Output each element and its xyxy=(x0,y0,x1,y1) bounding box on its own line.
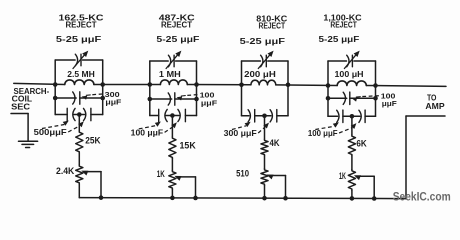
svg-text:1K: 1K xyxy=(157,169,165,179)
potentiometer R3b 510 xyxy=(236,169,268,186)
inductor L3 200 μH xyxy=(244,69,276,85)
wire: main signal line from search coil to amp xyxy=(14,83,446,86)
inductor L4 100 μH xyxy=(335,69,367,85)
node stage 4 trimmer value 5-25 uuF xyxy=(319,35,360,44)
node stage 3 main-line junctions xyxy=(239,82,290,87)
capacitor C2b 100 uuF (middle branch) xyxy=(148,93,199,105)
node stage 4 title 1,100-KC REJECT xyxy=(323,14,362,30)
capacitor C1c / C1d series pair (bottom branch) xyxy=(55,108,102,120)
svg-text:5-25 μμF: 5-25 μμF xyxy=(56,35,102,44)
capacitor C2c / C2d series pair (bottom branch) xyxy=(150,109,197,121)
wire stage 1 pot bottom to rail xyxy=(78,184,80,198)
wire stage 4 right vertical xyxy=(375,61,377,116)
node stage 1 trimmer value 5-25 uuF xyxy=(56,35,102,44)
wire stage 1 between resistors xyxy=(78,153,80,165)
capacitor C3a trimmer 5-25uuF (top branch) xyxy=(242,51,289,69)
capacitor C1a trimmer 5-25uuF (top branch) xyxy=(55,51,102,69)
node SeekIC.com watermark xyxy=(393,190,451,204)
wire: bottom common rail xyxy=(79,197,406,200)
node stage 3 title 810-KC REJECT xyxy=(256,15,287,31)
svg-text:μμF: μμF xyxy=(382,99,398,108)
wire stage 3 right vertical xyxy=(287,61,289,116)
node label 100 μμF with pointers xyxy=(308,122,357,138)
inductor L2 1 MH xyxy=(159,69,187,84)
node label 300 uuF with pointer xyxy=(82,90,122,107)
svg-text:100 μμF: 100 μμF xyxy=(308,129,338,138)
capacitor C1b 300 uuF (middle branch) xyxy=(53,92,105,104)
wire stage 3 center tap down xyxy=(264,116,266,139)
svg-text:500μμF: 500μμF xyxy=(34,128,67,137)
svg-text:100 μH: 100 μH xyxy=(335,69,364,79)
node label 100 μμF with pointers xyxy=(131,122,177,138)
ground xyxy=(19,141,38,147)
resistor R2a 15K xyxy=(169,137,197,159)
svg-text:REJECT: REJECT xyxy=(66,20,97,29)
node label 500μμF with pointers xyxy=(34,121,84,138)
wire stage 1 right vertical xyxy=(102,60,104,115)
capacitor C3c / C3d series pair (bottom branch) xyxy=(242,110,289,122)
svg-text:25K: 25K xyxy=(85,136,101,146)
wire: search-coil secondary lower lead xyxy=(11,114,28,141)
node label 300 μμF with pointers xyxy=(224,122,269,138)
wire: output return riser to amp xyxy=(406,116,445,199)
node label 100 uuF with pointer xyxy=(352,92,398,109)
svg-text:4K: 4K xyxy=(270,138,281,148)
potentiometer R2b 1K xyxy=(157,169,176,189)
wire stage 4 center tap down xyxy=(351,116,353,135)
node stage 2 title 487-KC REJECT xyxy=(159,14,195,30)
wire stage 3 pot bottom to rail xyxy=(262,185,267,200)
wire stage 3 left vertical xyxy=(241,61,243,116)
svg-text:100 μμF: 100 μμF xyxy=(131,128,163,137)
node TO AMP label xyxy=(425,94,445,112)
resistor R1a 25K xyxy=(76,131,101,153)
wire stage 2 between resistors xyxy=(171,159,173,171)
svg-text:5-25 μμF: 5-25 μμF xyxy=(319,35,360,44)
wire stage 2 pot bottom to rail xyxy=(170,189,175,200)
svg-text:6K: 6K xyxy=(356,139,367,149)
wire stage 3 pot wiper to rail xyxy=(267,175,288,201)
svg-text:1K: 1K xyxy=(339,171,346,181)
node stage 1 title 162.5-KC REJECT xyxy=(59,14,104,30)
svg-text:300 μμF: 300 μμF xyxy=(224,129,257,138)
wire stage 1 left vertical xyxy=(54,60,56,115)
svg-text:AMP: AMP xyxy=(425,102,445,111)
capacitor C4c / C4d series pair (bottom branch) xyxy=(328,110,376,122)
wire stage 1 pot wiper to rail xyxy=(81,171,103,200)
potentiometer R4b 1K xyxy=(339,170,356,191)
svg-text:1 MH: 1 MH xyxy=(159,69,181,79)
svg-text:μμF: μμF xyxy=(201,98,218,107)
svg-text:15K: 15K xyxy=(180,140,197,150)
node label 100 uuF with pointer xyxy=(177,91,218,108)
svg-text:5-25 μμF: 5-25 μμF xyxy=(156,35,199,44)
capacitor C2a trimmer 5-25uuF (top branch) xyxy=(150,51,197,69)
wire stage 4 pot wiper to rail xyxy=(354,175,377,201)
node stage 2 trimmer value 5-25 uuF xyxy=(156,35,199,44)
svg-text:SeekIC.com: SeekIC.com xyxy=(393,190,451,204)
svg-text:REJECT: REJECT xyxy=(259,21,286,30)
wire stage 2 pot wiper to rail xyxy=(174,176,197,200)
wire stage 4 left vertical xyxy=(327,61,329,116)
svg-text:5-25 μμF: 5-25 μμF xyxy=(240,37,286,46)
wire stage 2 right vertical xyxy=(196,61,198,116)
svg-text:2.4K: 2.4K xyxy=(56,166,75,176)
wire stage 4 pot bottom to rail xyxy=(350,190,355,201)
svg-text:REJECT: REJECT xyxy=(330,20,357,29)
wire stage 2 left vertical xyxy=(149,61,151,116)
capacitor C4b 100 uuF (middle branch) xyxy=(326,92,378,104)
svg-text:200 μH: 200 μH xyxy=(244,69,276,79)
resistor R4a 6K xyxy=(348,135,367,156)
resistor R3a 4K xyxy=(261,138,280,156)
svg-text:2.5 MH: 2.5 MH xyxy=(67,69,95,79)
potentiometer R1b 2.4K xyxy=(56,165,83,184)
svg-text:μμF: μμF xyxy=(105,98,122,107)
capacitor C4a trimmer 5-25uuF (top branch) xyxy=(328,51,376,69)
node stage 4 main-line junctions xyxy=(326,83,378,88)
wire stage 3 between resistors xyxy=(264,156,266,169)
node stage 1 main-line junctions xyxy=(53,82,105,87)
inductor L1 2.5 MH xyxy=(65,69,95,84)
node SEARCH-COIL SEC label xyxy=(11,87,49,112)
wire stage 1 center tap down xyxy=(78,115,80,132)
wire stage 4 between resistors xyxy=(351,156,353,170)
wire stage 2 center tap down xyxy=(171,116,173,138)
svg-text:510: 510 xyxy=(236,169,249,179)
node stage 3 trimmer value 5-25 uuF xyxy=(240,37,286,46)
svg-text:SEC: SEC xyxy=(11,103,30,112)
svg-text:REJECT: REJECT xyxy=(161,20,192,29)
node stage 2 main-line junctions xyxy=(148,82,199,87)
